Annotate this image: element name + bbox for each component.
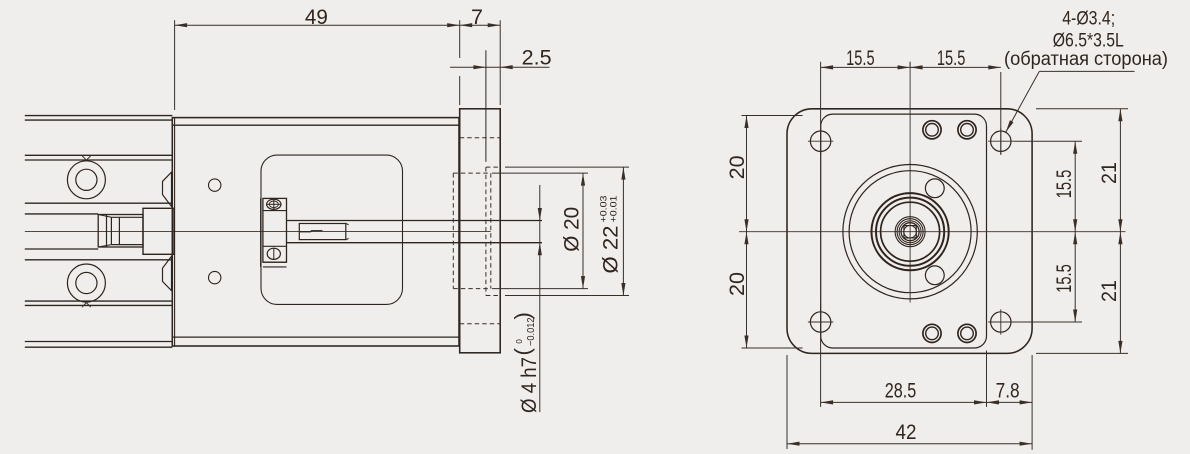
lead screw shaft	[287, 221, 543, 243]
flange face step line	[485, 50, 487, 162]
svg-text:7.8: 7.8	[996, 379, 1020, 403]
svg-text:−0.012: −0.012	[526, 317, 537, 346]
hidden recess diameter 22	[486, 167, 500, 295]
pilot boss and bearing circles	[843, 165, 977, 299]
tangent mark upper	[82, 156, 91, 161]
flange plate	[460, 109, 501, 353]
dimension 15.5 / 15.5 right	[1014, 141, 1083, 322]
dimension 49	[175, 5, 501, 110]
front vertical centerline	[909, 62, 911, 303]
svg-text:(: (	[510, 348, 535, 356]
dimension 2.5	[450, 45, 552, 69]
svg-text:15.5: 15.5	[846, 46, 875, 70]
rail roller lower	[67, 264, 105, 302]
svg-text:4-Ø3.4;: 4-Ø3.4;	[1062, 8, 1115, 29]
dimension 7.8 bottom	[987, 379, 1033, 405]
guide rail horizontal lines	[25, 116, 173, 348]
body hole lower	[209, 271, 221, 283]
rod end coupler	[98, 215, 143, 248]
screw bracket	[261, 198, 287, 267]
dimension diameter 22 with tolerance	[505, 167, 629, 295]
svg-text:15.5: 15.5	[1052, 264, 1076, 293]
flange front outline	[787, 109, 1032, 354]
dimension 21 / 21 right	[1036, 109, 1128, 354]
svg-text:7: 7	[471, 5, 483, 29]
wedge clamp lower	[163, 256, 172, 290]
hidden boss diameter 20	[453, 173, 491, 289]
wedge clamp upper	[163, 172, 172, 206]
screw head upper (phillips)	[267, 199, 281, 209]
motor screw boss bottom-left	[923, 324, 941, 342]
mounting hole bottom-right	[988, 309, 1013, 334]
svg-text:21: 21	[1097, 280, 1121, 302]
svg-text:42: 42	[896, 420, 917, 444]
svg-text:+0.01: +0.01	[609, 196, 620, 223]
svg-text:0: 0	[515, 339, 524, 344]
rod end block	[143, 208, 174, 254]
svg-text:(обратная сторона): (обратная сторона)	[1004, 49, 1168, 70]
note 4-dia3.4 counterbore (rear side) with leader	[1004, 8, 1168, 132]
tangent mark lower	[82, 303, 91, 308]
rail roller upper	[67, 161, 105, 199]
svg-text:28.5: 28.5	[885, 379, 917, 403]
assembly screw upper	[925, 179, 944, 198]
screw head lower (slotted)	[267, 248, 280, 259]
hidden hole axis upper	[460, 137, 501, 139]
dimension diameter 4 h7 with tolerance	[510, 185, 542, 413]
dimension 15.5 / 15.5 top	[821, 46, 1001, 155]
mounting hole top-right	[988, 129, 1013, 154]
centerline of actuator axis	[25, 230, 491, 232]
svg-text:20: 20	[725, 272, 749, 296]
motor body outline	[821, 114, 987, 348]
dimension diameter 20	[492, 173, 588, 289]
front horizontal centerline	[739, 231, 1126, 233]
svg-text:2.5: 2.5	[522, 45, 552, 69]
body hole upper	[209, 179, 221, 191]
assembly screw lower	[925, 266, 944, 285]
svg-text:49: 49	[305, 5, 328, 29]
svg-text:15.5: 15.5	[1052, 170, 1076, 199]
mounting hole bottom-left	[808, 309, 833, 334]
dimension 20 / 20 left	[725, 116, 802, 349]
svg-text:): )	[510, 312, 535, 319]
motor screw boss bottom-right	[958, 324, 976, 342]
body pocket rounded rectangle	[261, 155, 403, 304]
hidden hole axis lower	[460, 323, 501, 325]
svg-text:21: 21	[1097, 162, 1121, 184]
svg-text:Ø 20: Ø 20	[560, 207, 584, 252]
dimension 7	[460, 5, 501, 29]
motor screw boss top-left	[923, 121, 941, 139]
mounting hole top-left	[808, 129, 833, 154]
motor screw boss top-right	[958, 121, 976, 139]
svg-text:15.5: 15.5	[937, 46, 966, 70]
svg-text:20: 20	[725, 155, 749, 179]
svg-text:Ø 22: Ø 22	[599, 226, 623, 274]
svg-text:Ø 4 h7: Ø 4 h7	[517, 357, 541, 413]
actuator body	[172, 118, 459, 346]
dimension 42 bottom	[787, 420, 1032, 446]
dimension 28.5 bottom	[787, 303, 1032, 450]
